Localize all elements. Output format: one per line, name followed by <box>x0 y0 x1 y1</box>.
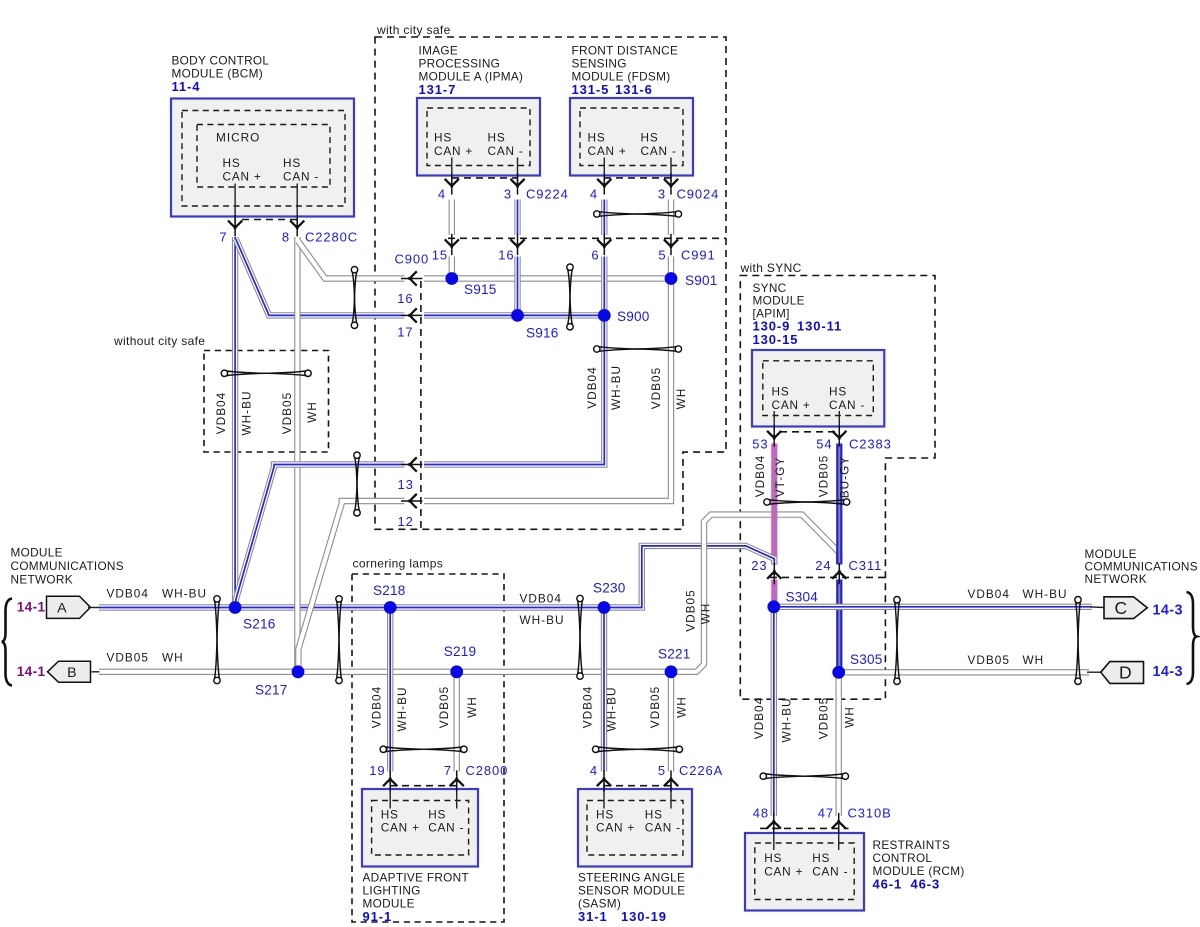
svg-text:CAN -: CAN - <box>829 398 865 412</box>
svg-text:WH: WH <box>465 696 479 718</box>
connector C991 pin 5 <box>664 234 678 255</box>
svg-text:C310B: C310B <box>848 806 892 821</box>
svg-text:C: C <box>1115 598 1128 618</box>
svg-text:131-6: 131-6 <box>615 82 653 97</box>
twisted pair symbol on bus at x=339 <box>336 596 342 684</box>
splice S916 <box>511 309 524 322</box>
connector D off-page arrow <box>1087 671 1101 673</box>
splice S218 <box>384 601 397 614</box>
svg-text:HS: HS <box>829 385 847 399</box>
wire: C900 pin 16 to splices S915 S901 (WH) <box>424 275 671 281</box>
svg-text:WH: WH <box>842 706 856 728</box>
connector C900 pin 15 <box>445 234 459 255</box>
svg-text:VDB04: VDB04 <box>107 587 149 601</box>
wire: VDB05 WH bus right (S305 to D) <box>839 669 1089 675</box>
svg-text:LIGHTING: LIGHTING <box>363 884 421 898</box>
wire: C900 pin 15 to splice S915 (WH) <box>449 257 455 279</box>
svg-text:with city safe: with city safe <box>376 23 451 37</box>
svg-text:HS: HS <box>772 385 790 399</box>
svg-text:46-1: 46-1 <box>873 877 903 892</box>
svg-text:C900: C900 <box>395 252 430 267</box>
svg-text:WH-BU: WH-BU <box>1023 587 1068 601</box>
svg-text:S230: S230 <box>593 581 626 596</box>
node: dashed region box 'with SYNC' <box>740 276 935 700</box>
splice S915 <box>445 272 458 285</box>
svg-text:A: A <box>57 601 67 617</box>
wire: S305 VDB05 WH down to RCM pin 47 <box>836 672 842 816</box>
twisted pair symbol on bus at x=1078 <box>1075 597 1081 685</box>
svg-text:14-1: 14-1 <box>17 600 46 615</box>
svg-text:WH-BU: WH-BU <box>609 365 623 410</box>
wire: BCM pin 7 branch to C900 pin 17 (WH-BU) <box>236 239 405 315</box>
connector C900 pin 16 arrow <box>401 271 422 285</box>
svg-text:WH: WH <box>162 651 184 665</box>
svg-text:HS: HS <box>764 851 782 865</box>
svg-text:without city safe: without city safe <box>113 334 205 348</box>
wire: S304 VDB04 WH-BU down to RCM pin 48 <box>771 607 777 816</box>
svg-text:C2800: C2800 <box>466 763 509 778</box>
svg-text:14-3: 14-3 <box>1153 664 1183 680</box>
splice S900 <box>598 309 611 322</box>
connector C310B pins 48/47 at RCM <box>773 826 775 851</box>
svg-text:WH: WH <box>674 388 688 410</box>
svg-text:WH-BU: WH-BU <box>162 587 207 601</box>
svg-text:FRONT DISTANCE: FRONT DISTANCE <box>572 44 679 58</box>
svg-text:6: 6 <box>591 248 599 263</box>
svg-text:COMMUNICATIONS: COMMUNICATIONS <box>11 559 124 573</box>
svg-text:VDB05: VDB05 <box>437 686 451 728</box>
svg-text:S219: S219 <box>444 644 477 659</box>
svg-text:S916: S916 <box>526 326 559 341</box>
wire: C311 pin 23 VT-GY to splice S304 <box>771 580 777 607</box>
svg-text:14-3: 14-3 <box>1153 603 1183 619</box>
wire: VDB05 WH main bus bottom (B to C311 pin 24) <box>99 515 839 672</box>
svg-text:16: 16 <box>498 248 514 263</box>
twisted pair symbol (without city safe) <box>221 370 311 376</box>
svg-text:3: 3 <box>658 187 666 202</box>
connector C9024 pins 4/3 at FDSM <box>603 158 605 183</box>
svg-text:11-4: 11-4 <box>172 79 201 94</box>
wire: C900 pin 13 left segment to splice S216 (WH-BU) <box>235 465 404 608</box>
svg-text:BODY CONTROL: BODY CONTROL <box>172 54 270 68</box>
splice S305 <box>832 666 845 679</box>
svg-text:VDB04: VDB04 <box>585 366 599 408</box>
svg-text:VDB04: VDB04 <box>370 686 384 728</box>
svg-text:23: 23 <box>751 558 767 573</box>
wire: BCM pin 8 branch to C900 pin 16 (WH) <box>298 241 404 279</box>
svg-text:CAN -: CAN - <box>428 821 464 835</box>
svg-text:HS: HS <box>434 131 452 145</box>
svg-text:131-5: 131-5 <box>572 82 610 97</box>
twisted pair symbol above SASM <box>593 746 683 752</box>
splice S304 <box>767 600 780 613</box>
twisted pair symbol on bus at x=897 <box>894 597 900 685</box>
wire: IPMA pin 4 WH down to C900 pin 15 <box>449 200 455 236</box>
module RCM box <box>745 833 864 911</box>
svg-text:HS: HS <box>588 131 606 145</box>
svg-text:SENSING: SENSING <box>572 57 627 71</box>
svg-text:4: 4 <box>590 763 598 778</box>
svg-text:C9024: C9024 <box>677 187 720 202</box>
svg-text:WH-BU: WH-BU <box>520 613 565 627</box>
splice S221 <box>665 665 678 678</box>
svg-text:HS: HS <box>428 808 446 822</box>
svg-text:MODULE: MODULE <box>753 294 805 308</box>
svg-text:5: 5 <box>658 763 666 778</box>
svg-text:48: 48 <box>753 806 769 821</box>
connector C311 pin 23 arrow <box>767 563 781 584</box>
splice S901 <box>665 272 678 285</box>
svg-text:CAN -: CAN - <box>488 144 524 158</box>
wire: S219 VDB05 WH down to AFLM pin 7 <box>454 672 460 772</box>
twisted pair symbol under APIM <box>764 499 850 505</box>
wire: S221 VDB05 WH down to SASM pin 5 <box>668 672 674 772</box>
wire: S218 VDB04 WH-BU down to AFLM pin 19 <box>387 608 393 772</box>
svg-text:WH: WH <box>699 603 713 625</box>
connector C226A pins 4/5 at SASM <box>603 783 605 809</box>
svg-text:5: 5 <box>658 248 666 263</box>
wire: IPMA pin 3 WH-BU down to C900 pin 16 stub <box>514 200 520 236</box>
connector C311 dashed line <box>770 576 886 578</box>
module AFLM box <box>362 789 478 867</box>
svg-text:WH-BU: WH-BU <box>395 687 409 732</box>
wire: bus diagonal joining C311 pin 23 (WH-BU) <box>738 546 774 564</box>
connector C900 pin 16 (upper) <box>510 234 524 255</box>
connector C2800 pins 19/7 at AFLM <box>389 783 391 809</box>
connector C off-page arrow <box>1090 606 1104 609</box>
svg-text:with SYNC: with SYNC <box>740 261 802 275</box>
node: right brace <box>1187 592 1197 684</box>
svg-text:130-19: 130-19 <box>621 909 667 924</box>
svg-text:HS: HS <box>645 808 663 822</box>
svg-text:VDB05: VDB05 <box>816 697 830 739</box>
node: dashed region box 'with city safe' <box>375 37 726 529</box>
svg-text:8: 8 <box>282 230 290 245</box>
wire: C311 pin 24 BU-GY to splice S305 <box>836 580 842 673</box>
module IPMA box <box>417 98 540 176</box>
svg-text:IMAGE: IMAGE <box>419 44 459 58</box>
svg-text:VDB05: VDB05 <box>816 455 830 497</box>
connector C991 pin 6 <box>597 234 611 255</box>
svg-text:130-11: 130-11 <box>797 319 842 334</box>
svg-text:S305: S305 <box>850 652 883 667</box>
twisted pair symbol on bus at x=580 <box>577 595 583 679</box>
svg-text:WH-BU: WH-BU <box>605 687 619 732</box>
svg-text:CAN -: CAN - <box>283 170 319 184</box>
wire: VDB04 WH-BU bus right (S304 to C) <box>774 604 1092 610</box>
wire: C900 pin 12 left segment to splice S217 (WH) <box>298 501 404 672</box>
svg-text:C991: C991 <box>681 248 716 263</box>
svg-text:130-15: 130-15 <box>753 332 799 347</box>
svg-text:CAN -: CAN - <box>641 144 677 158</box>
wire: APIM pin 53 VDB04 VT-GY down to C311 pin 23 <box>771 444 777 565</box>
svg-text:D: D <box>1119 663 1132 683</box>
module FDSM box <box>570 98 693 176</box>
svg-text:VDB04: VDB04 <box>520 592 562 606</box>
svg-text:MODULE: MODULE <box>11 546 63 560</box>
svg-text:VDB04: VDB04 <box>968 587 1010 601</box>
node: dashed region box 'cornering lamps' <box>352 574 504 922</box>
svg-text:53: 53 <box>752 437 768 452</box>
connector C311 pin 24 arrow <box>832 563 846 584</box>
svg-text:S218: S218 <box>373 583 406 598</box>
svg-text:VDB04: VDB04 <box>752 697 766 739</box>
connector C900 pin 17 arrow <box>401 308 422 322</box>
svg-text:19: 19 <box>369 763 385 778</box>
svg-text:VDB04: VDB04 <box>581 686 595 728</box>
svg-text:CAN +: CAN + <box>223 170 262 184</box>
svg-text:HS: HS <box>488 131 506 145</box>
connector C2280C pins 7/8 at BCM <box>234 184 236 225</box>
connector A off-page arrow <box>47 596 91 618</box>
splice S217 <box>292 665 305 678</box>
svg-text:CAN +: CAN + <box>772 398 811 412</box>
svg-text:ADAPTIVE FRONT: ADAPTIVE FRONT <box>363 871 469 885</box>
svg-text:S915: S915 <box>464 282 497 297</box>
svg-text:C9224: C9224 <box>526 187 569 202</box>
svg-text:CAN +: CAN + <box>434 144 473 158</box>
svg-text:VDB04: VDB04 <box>753 455 767 497</box>
connector C9224 pins 4/3 at IPMA <box>451 158 453 183</box>
svg-text:S901: S901 <box>685 273 718 288</box>
svg-text:VT-GY: VT-GY <box>773 457 787 497</box>
wire: APIM pin 54 VDB05 BU-GY down to C311 pin 24 <box>836 444 842 565</box>
connector B off-page arrow <box>48 661 91 682</box>
svg-text:24: 24 <box>815 558 831 573</box>
svg-text:CAN +: CAN + <box>764 865 803 879</box>
svg-text:131-7: 131-7 <box>419 82 457 97</box>
svg-text:HS: HS <box>223 156 241 170</box>
svg-text:4: 4 <box>590 187 598 202</box>
svg-text:MICRO: MICRO <box>216 131 260 145</box>
svg-text:S900: S900 <box>617 309 650 324</box>
connector C900 dashed line <box>420 281 422 529</box>
twisted pair symbol under FDSM (C9024) <box>594 211 682 217</box>
svg-text:S304: S304 <box>786 590 819 605</box>
svg-text:BU-GY: BU-GY <box>838 456 852 498</box>
svg-text:HS: HS <box>641 131 659 145</box>
svg-text:7: 7 <box>219 230 227 245</box>
node: left brace <box>2 599 12 686</box>
svg-text:14-1: 14-1 <box>17 664 46 679</box>
svg-text:CONTROL: CONTROL <box>873 851 933 865</box>
svg-text:cornering lamps: cornering lamps <box>353 557 444 571</box>
svg-text:SENSOR MODULE: SENSOR MODULE <box>578 884 685 898</box>
connector C2383 pins 53/54 at APIM <box>773 411 775 434</box>
svg-text:S216: S216 <box>243 617 276 632</box>
svg-text:91-1: 91-1 <box>363 909 393 924</box>
svg-text:13: 13 <box>398 477 414 492</box>
wire: BCM pin 8 VDB05 WH vertical to splice S217 <box>294 237 300 672</box>
wire: S230 VDB04 WH-BU down to SASM pin 4 <box>601 608 607 772</box>
svg-text:3: 3 <box>504 187 512 202</box>
wire: C991 pin 6 through S900 down and left to C900 pin 13 (WH-BU) <box>424 257 604 465</box>
module BCM box <box>171 99 354 217</box>
svg-text:NETWORK: NETWORK <box>11 573 73 587</box>
svg-text:HS: HS <box>812 851 830 865</box>
svg-text:NETWORK: NETWORK <box>1085 572 1147 586</box>
svg-text:C311: C311 <box>849 558 883 573</box>
connector C900 pin 13 arrow <box>401 457 422 471</box>
twisted pair symbol between S916 and S900 <box>567 264 573 330</box>
svg-text:VDB05: VDB05 <box>648 686 662 728</box>
twisted pair symbol on bus at x=217 <box>214 596 220 684</box>
svg-text:16: 16 <box>397 291 413 306</box>
svg-text:VDB04: VDB04 <box>214 392 228 434</box>
svg-text:S221: S221 <box>658 646 691 661</box>
module SYNC APIM box <box>752 350 884 427</box>
svg-text:C226A: C226A <box>679 763 723 778</box>
connector row C900/C991 dashed line <box>448 237 726 239</box>
svg-text:VDB05: VDB05 <box>280 392 294 434</box>
svg-text:STEERING ANGLE: STEERING ANGLE <box>578 871 685 885</box>
svg-text:WH: WH <box>305 401 319 423</box>
svg-text:46-3: 46-3 <box>911 877 941 892</box>
wire: FDSM pin 3 WH down to C991 pin 5 <box>668 200 674 236</box>
svg-text:7: 7 <box>444 763 452 778</box>
svg-text:C2280C: C2280C <box>305 230 358 245</box>
svg-text:12: 12 <box>398 514 414 529</box>
svg-text:S217: S217 <box>255 683 288 698</box>
svg-text:RESTRAINTS: RESTRAINTS <box>873 838 951 852</box>
splice S216 <box>229 601 242 614</box>
svg-text:HS: HS <box>381 808 399 822</box>
svg-text:VDB05: VDB05 <box>649 367 663 409</box>
svg-text:4: 4 <box>438 187 446 202</box>
svg-text:VDB05: VDB05 <box>684 589 698 631</box>
svg-text:31-1: 31-1 <box>578 909 608 924</box>
svg-text:C2383: C2383 <box>849 437 892 452</box>
svg-text:VDB05: VDB05 <box>107 651 149 665</box>
splice S230 <box>598 601 611 614</box>
svg-text:CAN +: CAN + <box>596 821 635 835</box>
svg-text:CAN -: CAN - <box>812 865 848 879</box>
svg-text:15: 15 <box>432 248 448 263</box>
svg-text:VDB05: VDB05 <box>968 653 1010 667</box>
svg-text:WH-BU: WH-BU <box>239 391 253 436</box>
svg-text:HS: HS <box>596 808 614 822</box>
svg-text:CAN +: CAN + <box>381 821 420 835</box>
wire: C900 pin 17 to splices S916 S900 (WH-BU) <box>424 312 604 318</box>
svg-text:CAN +: CAN + <box>588 144 627 158</box>
connector C900 pin 12 arrow <box>401 494 422 508</box>
svg-text:CAN -: CAN - <box>645 821 681 835</box>
twisted pair symbol on wires 16/17 <box>351 267 357 329</box>
wire: BCM pin 7 VDB04 WH-BU vertical to splice S216 <box>232 237 238 608</box>
twisted pair symbol under S900/S901 <box>594 346 682 352</box>
svg-text:WH: WH <box>1023 653 1045 667</box>
wire: FDSM pin 4 WH-BU down to C991 pin 6 <box>601 200 607 236</box>
svg-text:WH: WH <box>675 696 689 718</box>
twisted pair symbol above RCM <box>760 773 848 779</box>
svg-text:47: 47 <box>818 806 834 821</box>
twisted pair symbol on wires 13/12 <box>354 452 360 516</box>
module SASM box <box>578 789 692 867</box>
twisted pair symbol above AFLM <box>380 746 467 752</box>
wire: stub to splice S916 (WH-BU) <box>514 257 520 316</box>
splice S219 <box>450 665 463 678</box>
svg-text:PROCESSING: PROCESSING <box>419 57 501 71</box>
svg-text:17: 17 <box>397 325 413 340</box>
node: dashed region box 'without city safe' <box>204 351 329 453</box>
svg-text:WH-BU: WH-BU <box>779 698 793 743</box>
svg-text:54: 54 <box>816 437 832 452</box>
wire: VDB04 WH-BU main bus left (A toward C311 pin 23) <box>99 546 746 608</box>
svg-text:B: B <box>67 665 77 681</box>
svg-text:HS: HS <box>283 156 301 170</box>
wire: C991 pin 5 through S901 down and left to C900 pin 12 (WH) <box>424 257 671 502</box>
